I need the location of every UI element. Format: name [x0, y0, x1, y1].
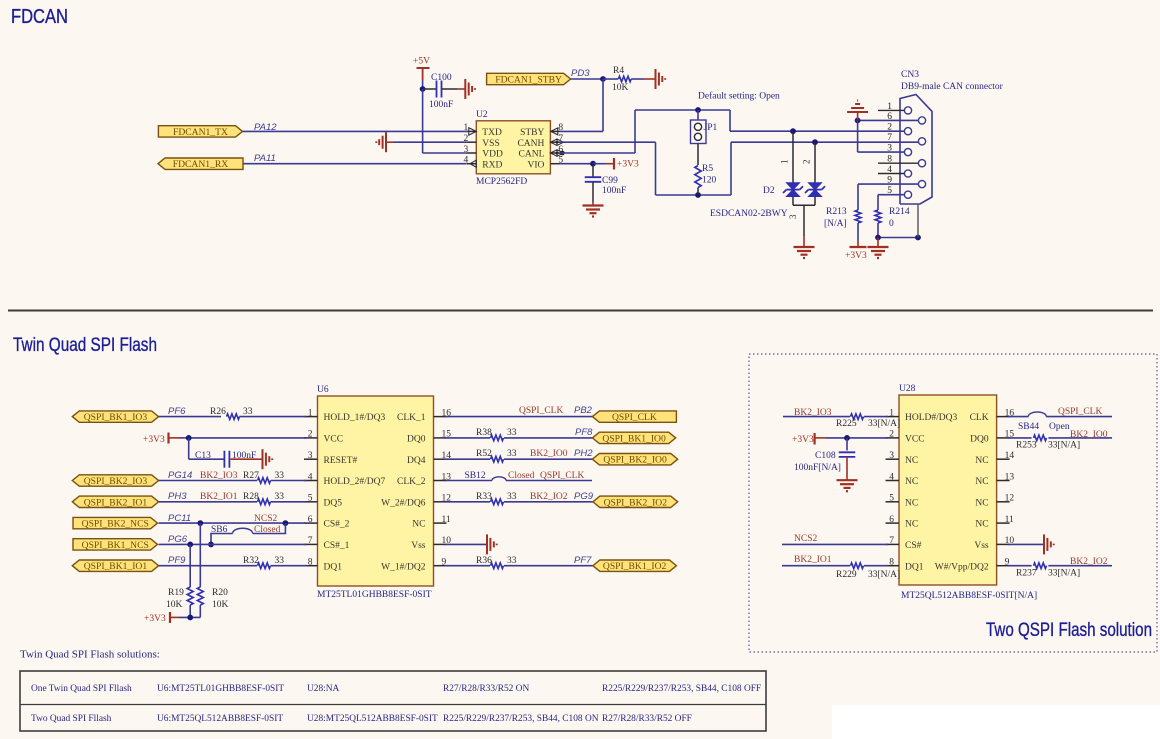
- svg-text:QSPI_CLK: QSPI_CLK: [540, 471, 584, 481]
- svg-text:R214: R214: [889, 207, 910, 217]
- svg-text:D2: D2: [763, 186, 775, 196]
- svg-text:12: 12: [1005, 494, 1015, 504]
- svg-text:VCC: VCC: [324, 435, 344, 445]
- svg-text:NC: NC: [975, 477, 988, 487]
- svg-text:NC: NC: [905, 498, 918, 508]
- svg-text:Vss: Vss: [974, 541, 989, 551]
- svg-text:PH3: PH3: [168, 491, 187, 502]
- svg-text:PF9: PF9: [168, 555, 186, 566]
- svg-text:HOLD_1#/DQ3: HOLD_1#/DQ3: [324, 413, 386, 423]
- svg-text:C13: C13: [195, 451, 211, 461]
- svg-text:QSPI_BK1_IO2: QSPI_BK1_IO2: [603, 561, 667, 572]
- svg-text:Open: Open: [1049, 422, 1070, 432]
- svg-text:CANL: CANL: [519, 150, 545, 160]
- svg-text:VDD: VDD: [482, 150, 503, 160]
- svg-text:CLK_1: CLK_1: [397, 413, 426, 423]
- svg-text:RXD: RXD: [482, 160, 502, 170]
- svg-text:2: 2: [889, 430, 894, 440]
- svg-text:R225/R229/R237/R253, SB44, C10: R225/R229/R237/R253, SB44, C108 ON: [443, 714, 599, 724]
- svg-text:33: 33: [507, 556, 517, 566]
- svg-text:NCS2: NCS2: [794, 534, 817, 544]
- svg-text:JP1: JP1: [704, 123, 718, 133]
- svg-text:1: 1: [889, 408, 894, 418]
- svg-text:C99: C99: [602, 176, 618, 186]
- svg-text:BK2_IO3: BK2_IO3: [200, 471, 238, 481]
- svg-text:[N/A]: [N/A]: [824, 219, 847, 229]
- svg-text:PF7: PF7: [574, 555, 592, 566]
- svg-text:TXD: TXD: [482, 128, 502, 138]
- svg-text:33: 33: [275, 471, 285, 481]
- svg-text:W#/Vpp/DQ2: W#/Vpp/DQ2: [935, 562, 989, 572]
- svg-text:R27/R28/R33/R52 OFF: R27/R28/R33/R52 OFF: [602, 714, 692, 724]
- svg-text:R225/R229/R237/R253, SB44, C10: R225/R229/R237/R253, SB44, C108 OFF: [602, 684, 761, 694]
- svg-text:4: 4: [308, 472, 313, 482]
- svg-text:BK2_IO0: BK2_IO0: [530, 449, 568, 459]
- svg-text:BK2_IO1: BK2_IO1: [794, 555, 832, 565]
- svg-text:FDCAN1_TX: FDCAN1_TX: [173, 127, 228, 138]
- svg-text:R237: R237: [1016, 569, 1037, 579]
- svg-text:3: 3: [889, 451, 894, 461]
- svg-text:BK2_IO2: BK2_IO2: [530, 492, 568, 502]
- svg-text:+5V: +5V: [413, 57, 430, 67]
- svg-text:PD3: PD3: [571, 68, 590, 79]
- svg-text:DQ0: DQ0: [970, 435, 989, 445]
- svg-text:Two QSPI Flash solution: Two QSPI Flash solution: [986, 619, 1152, 641]
- svg-text:U28: U28: [899, 384, 916, 394]
- svg-text:U6:MT25TL01GHBB8ESF-0SIT: U6:MT25TL01GHBB8ESF-0SIT: [157, 684, 284, 694]
- svg-text:5: 5: [308, 494, 313, 504]
- svg-text:MCP2562FD: MCP2562FD: [476, 177, 527, 187]
- svg-text:R225: R225: [836, 419, 857, 429]
- svg-text:33: 33: [507, 449, 517, 459]
- svg-text:R213: R213: [826, 207, 847, 217]
- svg-text:QSPI_BK1_IO1: QSPI_BK1_IO1: [84, 561, 148, 572]
- svg-text:0: 0: [889, 219, 894, 229]
- svg-text:2: 2: [308, 430, 313, 440]
- svg-text:QSPI_BK2_NCS: QSPI_BK2_NCS: [82, 519, 149, 530]
- svg-text:CS#: CS#: [905, 541, 922, 551]
- svg-text:3: 3: [788, 214, 798, 219]
- svg-text:R27: R27: [243, 471, 259, 481]
- svg-text:5: 5: [889, 494, 894, 504]
- svg-text:NC: NC: [905, 520, 918, 530]
- svg-text:VSS: VSS: [482, 139, 499, 149]
- svg-text:FDCAN1_RX: FDCAN1_RX: [173, 159, 229, 170]
- svg-text:C108: C108: [815, 451, 836, 461]
- svg-text:33: 33: [243, 407, 253, 417]
- svg-text:7: 7: [889, 536, 894, 546]
- svg-text:+3V3: +3V3: [845, 251, 867, 261]
- svg-text:10K: 10K: [166, 600, 183, 610]
- svg-text:PA11: PA11: [254, 153, 276, 164]
- svg-text:R26: R26: [210, 407, 226, 417]
- svg-text:R19: R19: [168, 588, 184, 598]
- svg-text:MT25TL01GHBB8ESF-0SIT: MT25TL01GHBB8ESF-0SIT: [317, 590, 432, 600]
- svg-text:MT25QL512ABB8ESF-0SIT[N/A]: MT25QL512ABB8ESF-0SIT[N/A]: [901, 591, 1037, 601]
- svg-text:+3V3: +3V3: [144, 614, 166, 624]
- svg-text:Default setting: Open: Default setting: Open: [698, 91, 780, 102]
- svg-text:+3V3: +3V3: [617, 160, 639, 170]
- svg-text:NC: NC: [975, 498, 988, 508]
- svg-text:DQ4: DQ4: [407, 456, 426, 466]
- svg-text:PG14: PG14: [168, 470, 192, 481]
- svg-text:CS#_2: CS#_2: [324, 520, 350, 530]
- svg-text:DB9-male CAN connector: DB9-male CAN connector: [901, 82, 1004, 92]
- svg-text:FDCAN: FDCAN: [11, 6, 68, 28]
- svg-text:U28:MT25QL512ABB8ESF-0SIT: U28:MT25QL512ABB8ESF-0SIT: [307, 714, 438, 724]
- svg-text:1: 1: [308, 408, 313, 418]
- svg-text:Closed: Closed: [254, 525, 281, 535]
- svg-text:RESET#: RESET#: [324, 456, 358, 466]
- svg-text:CS#_1: CS#_1: [324, 541, 350, 551]
- svg-text:R28: R28: [243, 492, 259, 502]
- svg-text:QSPI_BK2_IO0: QSPI_BK2_IO0: [603, 455, 667, 466]
- svg-text:PG6: PG6: [168, 534, 188, 545]
- svg-text:HOLD#/DQ3: HOLD#/DQ3: [905, 413, 957, 423]
- svg-text:R229: R229: [836, 570, 857, 580]
- svg-text:DQ1: DQ1: [324, 562, 343, 572]
- svg-text:+3V3: +3V3: [143, 435, 165, 445]
- svg-text:C100: C100: [431, 73, 452, 83]
- svg-text:R38: R38: [476, 428, 492, 438]
- svg-text:One Twin Quad SPI Fllash: One Twin Quad SPI Fllash: [31, 684, 132, 694]
- svg-text:Closed: Closed: [508, 471, 535, 481]
- svg-text:R33: R33: [476, 492, 492, 502]
- svg-text:CN3: CN3: [901, 70, 919, 80]
- svg-text:W_1#/DQ2: W_1#/DQ2: [381, 562, 426, 572]
- svg-text:CLK: CLK: [970, 413, 989, 423]
- svg-text:4: 4: [889, 472, 894, 482]
- svg-text:33[N/A]: 33[N/A]: [1048, 569, 1080, 579]
- svg-text:U28:NA: U28:NA: [307, 684, 340, 694]
- svg-text:NC: NC: [412, 520, 425, 530]
- svg-text:STBY: STBY: [520, 128, 544, 138]
- svg-text:CANH: CANH: [517, 139, 544, 149]
- svg-text:U6:MT25QL512ABB8ESF-0SIT: U6:MT25QL512ABB8ESF-0SIT: [157, 714, 283, 724]
- svg-text:SB6: SB6: [211, 525, 228, 535]
- svg-text:PG9: PG9: [574, 491, 594, 502]
- svg-text:33: 33: [275, 556, 285, 566]
- svg-text:33: 33: [275, 492, 285, 502]
- svg-text:QSPI_CLK: QSPI_CLK: [612, 412, 657, 423]
- svg-text:11: 11: [442, 515, 451, 525]
- svg-text:PF6: PF6: [168, 406, 186, 417]
- svg-text:+3V3: +3V3: [792, 435, 814, 445]
- svg-text:SB44: SB44: [1018, 422, 1039, 432]
- svg-text:100nF: 100nF: [429, 100, 453, 110]
- svg-text:HOLD_2#/DQ7: HOLD_2#/DQ7: [324, 477, 386, 487]
- svg-text:2: 2: [887, 123, 892, 133]
- svg-text:QSPI_BK1_IO3: QSPI_BK1_IO3: [84, 412, 148, 423]
- svg-text:R20: R20: [212, 588, 228, 598]
- svg-text:6: 6: [889, 515, 894, 525]
- svg-text:VIO: VIO: [528, 160, 545, 170]
- svg-text:100nF: 100nF: [602, 186, 626, 196]
- svg-text:PF8: PF8: [575, 427, 593, 438]
- svg-text:DQ5: DQ5: [324, 498, 343, 508]
- svg-text:R27/R28/R33/R52 ON: R27/R28/R33/R52 ON: [443, 684, 529, 694]
- svg-text:1: 1: [780, 160, 790, 165]
- svg-text:6: 6: [308, 515, 313, 525]
- svg-text:QSPI_BK2_IO1: QSPI_BK2_IO1: [84, 497, 148, 508]
- svg-text:33: 33: [507, 492, 517, 502]
- svg-text:DQ1: DQ1: [905, 562, 924, 572]
- svg-text:8: 8: [889, 558, 894, 568]
- svg-text:U2: U2: [476, 110, 488, 120]
- svg-text:Twin Quad SPI Flash: Twin Quad SPI Flash: [13, 334, 157, 356]
- svg-text:7: 7: [308, 536, 313, 546]
- svg-text:100nF[N/A]: 100nF[N/A]: [794, 463, 841, 473]
- svg-text:Vss: Vss: [411, 541, 426, 551]
- svg-text:3: 3: [308, 451, 313, 461]
- svg-text:SB12: SB12: [465, 471, 486, 481]
- svg-text:ESDCAN02-2BWY: ESDCAN02-2BWY: [710, 209, 788, 219]
- svg-text:NC: NC: [905, 456, 918, 466]
- svg-text:QSPI_CLK: QSPI_CLK: [519, 406, 563, 416]
- svg-text:BK2_IO1: BK2_IO1: [200, 492, 238, 502]
- svg-text:QSPI_CLK: QSPI_CLK: [1058, 407, 1102, 417]
- svg-text:NC: NC: [975, 456, 988, 466]
- svg-text:W_2#/DQ6: W_2#/DQ6: [381, 498, 426, 508]
- svg-text:QSPI_BK1_IO0: QSPI_BK1_IO0: [602, 433, 666, 444]
- svg-text:R4: R4: [613, 66, 624, 76]
- svg-text:R32: R32: [243, 556, 259, 566]
- svg-text:BK2_IO2: BK2_IO2: [1070, 557, 1108, 567]
- svg-text:R253: R253: [1016, 441, 1037, 451]
- svg-text:14: 14: [1005, 451, 1015, 461]
- svg-text:Two Quad SPI Fllash: Two Quad SPI Fllash: [31, 714, 112, 724]
- svg-text:PH2: PH2: [574, 448, 593, 459]
- svg-text:VCC: VCC: [905, 435, 925, 445]
- svg-text:QSPI_BK1_NCS: QSPI_BK1_NCS: [82, 540, 149, 551]
- svg-text:NC: NC: [975, 520, 988, 530]
- svg-text:33[N/A]: 33[N/A]: [1048, 441, 1080, 451]
- svg-text:13: 13: [1005, 472, 1015, 482]
- svg-text:BK2_IO0: BK2_IO0: [1070, 430, 1108, 440]
- svg-text:33[N/A]: 33[N/A]: [868, 419, 900, 429]
- svg-text:33[N/A]: 33[N/A]: [868, 570, 900, 580]
- svg-text:FDCAN1_STBY: FDCAN1_STBY: [495, 75, 562, 86]
- svg-text:100nF: 100nF: [232, 451, 256, 461]
- svg-text:7: 7: [887, 133, 892, 143]
- svg-text:PB2: PB2: [574, 405, 593, 416]
- svg-text:R52: R52: [476, 449, 492, 459]
- svg-text:R36: R36: [476, 556, 492, 566]
- svg-text:R5: R5: [702, 164, 713, 174]
- svg-text:33: 33: [507, 428, 517, 438]
- svg-text:8: 8: [308, 558, 313, 568]
- svg-text:11: 11: [1005, 515, 1014, 525]
- svg-text:2: 2: [802, 160, 812, 165]
- svg-text:120: 120: [702, 176, 717, 186]
- svg-text:DQ0: DQ0: [407, 435, 426, 445]
- svg-text:QSPI_BK2_IO2: QSPI_BK2_IO2: [604, 497, 668, 508]
- svg-text:10K: 10K: [612, 83, 629, 93]
- svg-text:NC: NC: [905, 477, 918, 487]
- svg-text:10K: 10K: [212, 600, 229, 610]
- svg-text:Twin Quad SPI Flash solutions:: Twin Quad SPI Flash solutions:: [20, 649, 160, 661]
- svg-text:U6: U6: [317, 385, 329, 395]
- svg-text:CLK_2: CLK_2: [397, 477, 426, 487]
- svg-text:QSPI_BK2_IO3: QSPI_BK2_IO3: [84, 476, 148, 487]
